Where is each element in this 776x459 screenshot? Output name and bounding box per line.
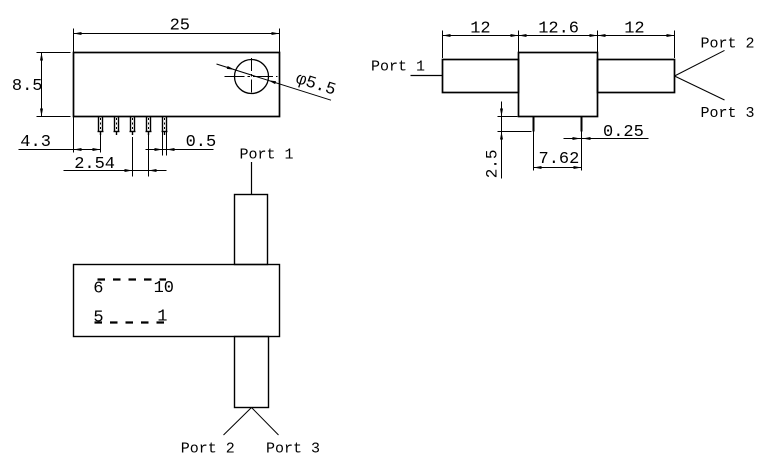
package body (side view) xyxy=(74,53,280,117)
pin 3 (side view) xyxy=(130,117,136,136)
dimension 0.5 arrow left xyxy=(155,148,163,151)
dimension 8.5 arrow top xyxy=(40,53,43,61)
svg-text:4.3: 4.3 xyxy=(20,133,51,152)
package body (bottom view) xyxy=(74,265,280,337)
dimension 0.25 arrow right xyxy=(583,137,591,140)
top tube (Port 1 side) xyxy=(235,195,268,265)
leader line for hole diameter xyxy=(217,64,332,100)
svg-text:6: 6 xyxy=(93,279,103,298)
svg-text:2.5: 2.5 xyxy=(484,149,502,178)
Port 3 leader line (bottom view) xyxy=(252,408,279,436)
mounting hole circle xyxy=(235,60,269,94)
svg-text:1: 1 xyxy=(157,307,167,326)
pin 2 (side view) xyxy=(114,117,120,136)
dimension 7.62 arrow left xyxy=(534,166,542,169)
dimension 25 arrow left xyxy=(74,32,82,35)
svg-text:8.5: 8.5 xyxy=(12,77,43,96)
pin right extension (for 7.62) xyxy=(581,132,583,171)
dimension 2.5 line xyxy=(501,102,503,179)
svg-text:25: 25 xyxy=(170,16,190,35)
pin 3 extension line (for 2.54) xyxy=(132,137,134,177)
dimension 25 arrow right xyxy=(272,32,280,35)
dimension 0.25 arrow left xyxy=(573,137,581,140)
svg-text:Port 3: Port 3 xyxy=(701,105,755,122)
Port 1 fiber stub xyxy=(411,75,443,77)
svg-text:2.54: 2.54 xyxy=(74,155,115,174)
svg-text:12.6: 12.6 xyxy=(538,19,579,38)
arrows segment 12 right xyxy=(598,34,606,37)
arrows segment 12 left xyxy=(443,34,451,37)
right collimator tube xyxy=(598,60,675,93)
dimension 0.25 line xyxy=(564,138,649,140)
svg-text:0.5: 0.5 xyxy=(186,133,217,152)
dimension 25 extension line left xyxy=(73,29,75,53)
svg-text:Port 2: Port 2 xyxy=(181,440,235,457)
svg-text:10: 10 xyxy=(154,279,174,298)
dimension 2.5 arrow upper xyxy=(500,109,503,117)
dimension 0.5 line xyxy=(146,149,214,151)
pin left extension (for 7.62) xyxy=(533,132,535,171)
dimension 7.62 arrow right xyxy=(574,166,582,169)
dimension 8.5 extension line top xyxy=(37,52,71,54)
dimension 0.5 arrow right xyxy=(167,148,175,151)
svg-text:5: 5 xyxy=(93,308,103,327)
Port 2 leader line xyxy=(675,50,725,76)
svg-text:7.62: 7.62 xyxy=(539,150,580,169)
left collimator tube xyxy=(443,60,519,93)
pin 4 (side view) xyxy=(146,117,152,136)
svg-text:Port 1: Port 1 xyxy=(371,59,425,76)
dimension 25 extension line right xyxy=(279,29,281,53)
block pin right (top view) xyxy=(581,117,583,132)
Port 1 lead line (bottom view) xyxy=(251,162,253,195)
dimension 12/12.6/12 extension lines xyxy=(442,31,444,59)
pin 5 side extension lines (for 0.5) xyxy=(162,132,164,156)
body left edge extension (for 4.3) xyxy=(73,117,75,153)
block pin left (top view) xyxy=(533,117,535,132)
svg-text:Port 2: Port 2 xyxy=(701,36,755,53)
hole centerline horizontal xyxy=(225,76,278,78)
svg-text:12: 12 xyxy=(624,19,644,38)
dimension 25 line xyxy=(74,33,280,35)
dimension 2.54 line xyxy=(64,170,167,172)
pin 1 (side view) xyxy=(98,117,104,136)
Port 2 leader line (bottom view) xyxy=(224,408,252,436)
dimension 8.5 arrow bottom xyxy=(40,109,43,117)
pin 1 extension line (for 4.3) xyxy=(100,135,102,153)
Port 3 leader line xyxy=(675,76,725,100)
dimension 8.5 extension line bottom xyxy=(37,116,71,118)
svg-text:0.25: 0.25 xyxy=(603,123,644,142)
dimension 4.3 line xyxy=(19,149,101,151)
svg-text:12: 12 xyxy=(470,19,490,38)
dimension 4.3 arrow right xyxy=(93,148,101,151)
pin row dashed line 5-1 xyxy=(95,321,170,323)
dimension 4.3 arrow left xyxy=(74,148,82,151)
hole centerline vertical xyxy=(251,58,253,96)
pin 4 extension line (for 2.54) xyxy=(148,135,150,177)
dimension 2.5 extension bottom xyxy=(498,131,532,133)
pin row dashed line 6-10 xyxy=(98,278,167,280)
svg-text:Port 3: Port 3 xyxy=(266,440,320,457)
dimension 2.54 arrow right xyxy=(149,169,157,172)
leader arrowhead left xyxy=(227,66,235,70)
dimension 7.62 line xyxy=(534,167,582,169)
arrows segment 12.6 xyxy=(519,34,527,37)
dimension 8.5 line xyxy=(41,53,43,117)
dimension 2.5 extension top xyxy=(498,116,518,118)
central block (top view) xyxy=(519,53,598,117)
dimension 2.5 arrow lower xyxy=(500,132,503,140)
bottom tube (Port 2/3 side) xyxy=(235,337,269,408)
dimension 2.54 arrow left xyxy=(125,169,133,172)
svg-text:Port 1: Port 1 xyxy=(240,147,294,164)
leader arrowhead right xyxy=(268,80,276,84)
dimension line 12/12.6/12 xyxy=(443,35,675,37)
pin 5 (side view) xyxy=(162,117,168,136)
